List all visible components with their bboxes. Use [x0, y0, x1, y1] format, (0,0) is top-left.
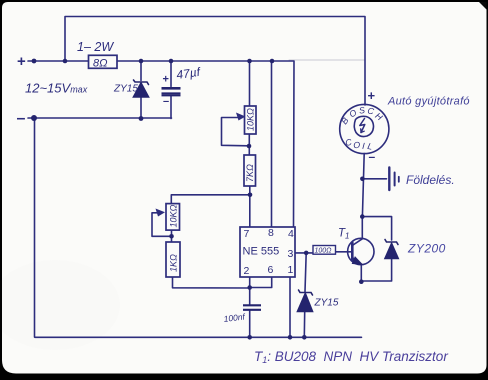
svg-text:4: 4 [288, 228, 294, 240]
svg-text:O: O [353, 140, 361, 150]
svg-text:8Ω: 8Ω [93, 58, 108, 70]
svg-text:+: + [163, 74, 169, 86]
svg-text:+: + [368, 88, 376, 103]
svg-text:T1: BU208 NPN HV Tranzisztor: T1: BU208 NPN HV Tranzisztor [254, 349, 448, 365]
svg-text:8: 8 [268, 227, 274, 239]
svg-text:7KΩ: 7KΩ [245, 164, 255, 182]
svg-text:6: 6 [268, 264, 274, 276]
svg-text:ZY200: ZY200 [407, 242, 446, 256]
svg-text:ZY15: ZY15 [113, 84, 138, 95]
svg-text:2: 2 [244, 265, 250, 277]
svg-text:10KΩ: 10KΩ [169, 204, 179, 227]
svg-text:100Ω: 100Ω [315, 248, 333, 255]
svg-text:+: + [17, 53, 26, 70]
svg-text:7: 7 [244, 228, 250, 240]
svg-text:NE 555: NE 555 [243, 246, 280, 258]
svg-text:ZY15: ZY15 [314, 298, 339, 309]
svg-text:–: – [17, 110, 26, 127]
svg-text:Autó gyújtótrafó: Autó gyújtótrafó [387, 96, 470, 108]
svg-text:–: – [163, 96, 169, 108]
svg-text:1– 2W: 1– 2W [77, 40, 114, 54]
svg-text:1: 1 [288, 264, 294, 276]
svg-text:10KΩ: 10KΩ [246, 108, 256, 131]
svg-text:Földelés.: Földelés. [406, 173, 455, 187]
svg-text:1KΩ: 1KΩ [169, 254, 179, 272]
svg-text:3: 3 [288, 248, 294, 260]
svg-text:–: – [369, 150, 376, 164]
